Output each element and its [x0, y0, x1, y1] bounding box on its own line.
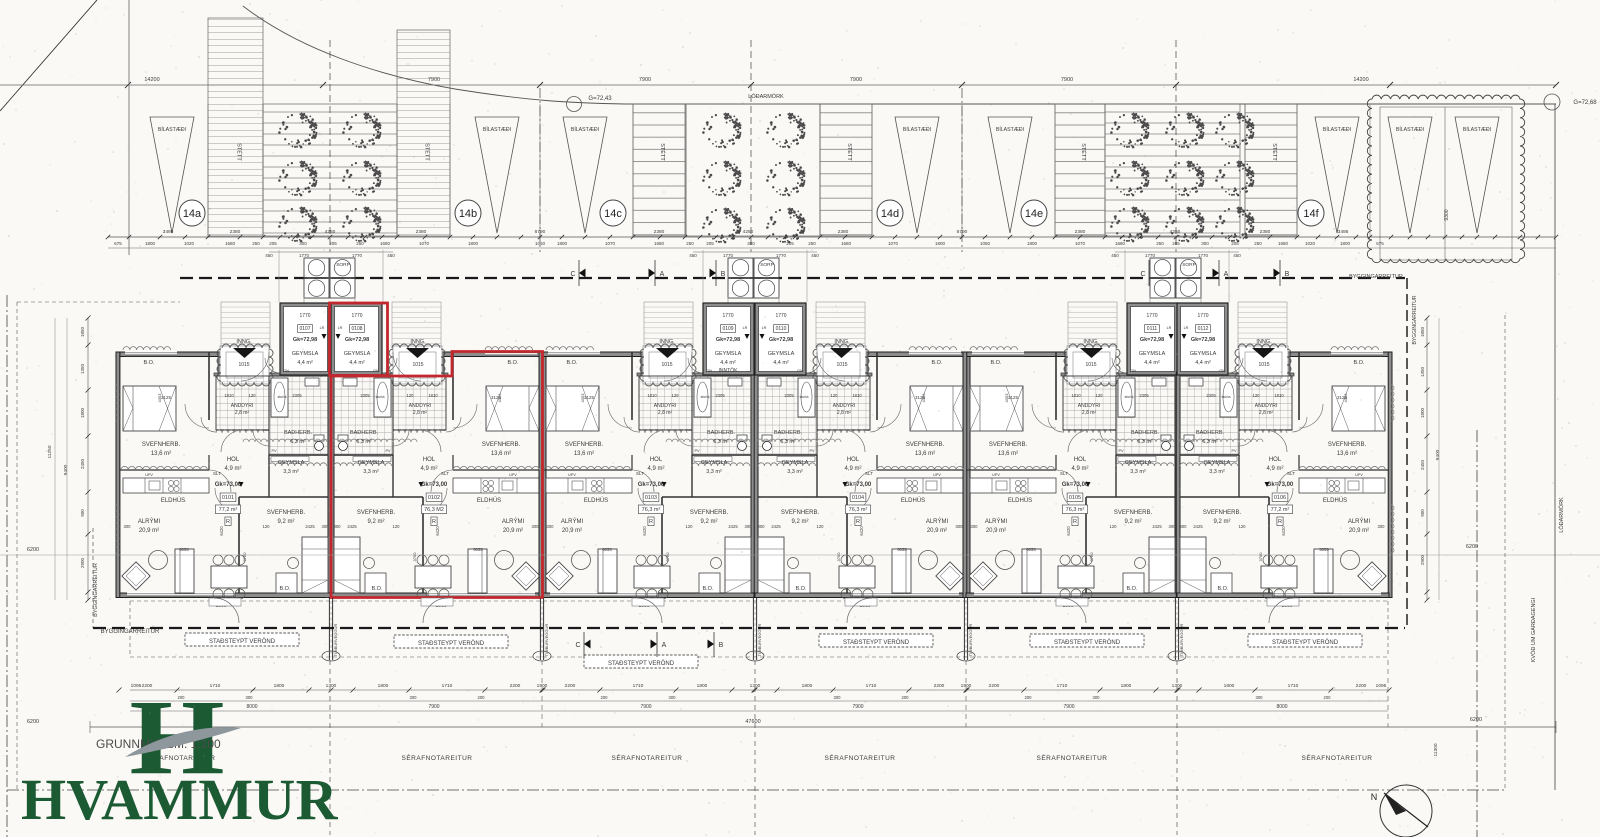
svg-text:HOL: HOL: [847, 457, 860, 463]
svg-text:1800: 1800: [1224, 683, 1235, 689]
svg-text:2380: 2380: [230, 229, 241, 235]
svg-text:1770: 1770: [299, 253, 310, 258]
svg-text:HOL: HOL: [1269, 457, 1282, 463]
svg-text:SVEFNHERB.: SVEFNHERB.: [482, 442, 521, 448]
svg-text:900: 900: [1420, 509, 1425, 517]
svg-text:0102: 0102: [428, 495, 440, 501]
svg-text:GEYMSLA: GEYMSLA: [344, 351, 371, 357]
SORP connectors: [303, 297, 305, 303]
svg-text:BÍLASTÆÐI: BÍLASTÆÐI: [996, 126, 1024, 133]
svg-text:250: 250: [1254, 241, 1262, 246]
svg-text:0101: 0101: [222, 495, 234, 501]
svg-text:3495: 3495: [163, 229, 174, 235]
svg-text:0105: 0105: [1069, 495, 1081, 501]
svg-text:1770: 1770: [351, 313, 362, 319]
svg-text:1770: 1770: [1146, 313, 1157, 319]
svg-text:SÉRAFNOTAREITUR: SÉRAFNOTAREITUR: [402, 753, 473, 762]
svg-text:2305: 2305: [360, 393, 370, 398]
svg-text:B.O.: B.O.: [931, 360, 942, 366]
svg-text:STÉTT: STÉTT: [846, 143, 853, 161]
right dashdot verticals: [1476, 430, 1478, 837]
svg-text:2380: 2380: [1260, 229, 1271, 235]
svg-text:sturta: sturta: [278, 395, 287, 399]
svg-text:2425: 2425: [728, 524, 738, 529]
red unit outline: [330, 303, 388, 376]
svg-text:ANDDYRI: ANDDYRI: [1078, 403, 1101, 409]
svg-text:ELDHÚS: ELDHÚS: [1323, 497, 1347, 504]
svg-text:6,3 m²: 6,3 m²: [780, 439, 796, 445]
stett sidewalk bands: [208, 18, 263, 236]
svg-text:20,9 m²: 20,9 m²: [562, 528, 582, 534]
svg-text:1800: 1800: [378, 683, 389, 689]
svg-text:120: 120: [686, 524, 694, 529]
svg-text:GEYMSLA: GEYMSLA: [715, 351, 742, 357]
svg-text:300: 300: [1256, 695, 1264, 700]
svg-text:2425: 2425: [1152, 524, 1162, 529]
svg-text:3780: 3780: [1089, 552, 1094, 562]
svg-text:ELDHÚS: ELDHÚS: [584, 497, 608, 504]
svg-text:1015: 1015: [238, 362, 249, 368]
svg-text:STAÐSTEYPT VERÖND: STAÐSTEYPT VERÖND: [1272, 639, 1339, 646]
svg-text:77,2 m²: 77,2 m²: [219, 507, 238, 513]
svg-text:SVEFNHERB.: SVEFNHERB.: [1328, 442, 1367, 448]
svg-text:1800: 1800: [145, 241, 156, 246]
svg-text:4,9 m²: 4,9 m²: [844, 466, 861, 472]
svg-text:450: 450: [1111, 253, 1119, 258]
svg-text:205: 205: [1172, 241, 1180, 246]
svg-text:200: 200: [1025, 695, 1033, 700]
svg-text:SLT: SLT: [441, 471, 449, 476]
overall dim line: [90, 726, 1556, 728]
svg-text:1800: 1800: [80, 407, 85, 418]
svg-text:250: 250: [1156, 241, 1164, 246]
svg-text:C: C: [575, 642, 580, 649]
svg-text:1070: 1070: [605, 241, 616, 246]
svg-text:1810: 1810: [1274, 393, 1284, 398]
svg-text:1800: 1800: [1027, 241, 1038, 246]
svg-text:B.O.: B.O.: [1126, 586, 1137, 592]
svg-text:1710: 1710: [1057, 683, 1068, 689]
svg-text:0109: 0109: [722, 326, 733, 332]
svg-text:SORP: SORP: [336, 262, 350, 268]
svg-text:B.O.: B.O.: [990, 360, 1001, 366]
svg-text:6790: 6790: [535, 229, 546, 235]
svg-text:B.O.: B.O.: [1217, 586, 1228, 592]
svg-text:INNG.: INNG.: [1256, 339, 1272, 345]
svg-text:4353: 4353: [157, 393, 162, 403]
svg-text:1800: 1800: [1420, 407, 1425, 418]
svg-text:STÉTT: STÉTT: [424, 143, 431, 161]
svg-text:3780: 3780: [1258, 552, 1263, 562]
svg-text:9,2 m²: 9,2 m²: [791, 519, 808, 525]
svg-text:7900: 7900: [639, 77, 651, 83]
svg-text:5055: 5055: [897, 547, 907, 552]
svg-text:Gk=73,00: Gk=73,00: [215, 482, 242, 488]
svg-text:3,3 m²: 3,3 m²: [1130, 469, 1146, 475]
svg-text:Gk=73,00: Gk=73,00: [1062, 482, 1089, 488]
svg-text:6,3 m²: 6,3 m²: [1202, 439, 1218, 445]
svg-text:GEYMSLA: GEYMSLA: [358, 460, 385, 466]
left boundary dashdot: [6, 295, 8, 837]
svg-text:13,6 m²: 13,6 m²: [574, 451, 594, 457]
svg-text:STÉTT: STÉTT: [659, 143, 666, 161]
curved boundary: [243, 6, 625, 104]
svg-text:6200: 6200: [1466, 544, 1478, 550]
svg-text:1020: 1020: [1305, 241, 1316, 246]
svg-text:250: 250: [686, 241, 694, 246]
svg-text:300: 300: [1201, 241, 1209, 246]
svg-text:ALRÝMI: ALRÝMI: [985, 518, 1008, 525]
revision cloud top right: [1367, 95, 1524, 263]
SORP bins: [304, 258, 329, 278]
svg-text:STAÐSTEYPT VERÖND: STAÐSTEYPT VERÖND: [843, 639, 910, 646]
svg-text:B.O.: B.O.: [279, 586, 290, 592]
svg-text:R: R: [226, 519, 230, 525]
svg-text:7900: 7900: [850, 77, 862, 83]
svg-text:8000: 8000: [246, 704, 257, 710]
svg-text:R: R: [1278, 519, 1282, 525]
svg-text:2200: 2200: [934, 683, 945, 689]
svg-text:300: 300: [410, 695, 418, 700]
svg-text:TIMBURVEGGUR: TIMBURVEGGUR: [544, 624, 549, 657]
svg-text:4,9 m²: 4,9 m²: [1071, 466, 1088, 472]
svg-text:ANDDYRI: ANDDYRI: [1255, 403, 1278, 409]
timber walls between verandas: [328, 598, 330, 660]
svg-text:0107: 0107: [299, 326, 310, 332]
svg-text:B.O.: B.O.: [371, 586, 382, 592]
svg-text:GEYMSLA: GEYMSLA: [1139, 351, 1166, 357]
svg-text:6420: 6420: [219, 526, 224, 536]
svg-text:900: 900: [80, 509, 85, 517]
svg-text:GN: GN: [373, 368, 379, 373]
svg-text:5055: 5055: [602, 547, 612, 552]
svg-text:R: R: [649, 519, 653, 525]
svg-text:SORP: SORP: [1182, 262, 1196, 268]
svg-text:STAÐSTEYPT VERÖND: STAÐSTEYPT VERÖND: [209, 638, 276, 645]
svg-text:200: 200: [601, 695, 609, 700]
svg-text:B.O.: B.O.: [143, 360, 154, 366]
svg-text:BÍLASTÆÐI: BÍLASTÆÐI: [1463, 126, 1491, 133]
svg-text:76,3 m²: 76,3 m²: [1066, 507, 1085, 513]
svg-text:14a: 14a: [183, 208, 202, 220]
svg-text:3125: 3125: [161, 395, 172, 400]
svg-text:sturta: sturta: [800, 395, 809, 399]
svg-text:6,3 m²: 6,3 m²: [290, 439, 306, 445]
svg-text:G=72,68: G=72,68: [1573, 100, 1597, 106]
svg-text:3,3 m²: 3,3 m²: [283, 469, 299, 475]
svg-text:SVEFNHERB.: SVEFNHERB.: [1114, 510, 1153, 516]
svg-text:SVEFNHERB.: SVEFNHERB.: [989, 442, 1028, 448]
svg-text:11300: 11300: [1433, 743, 1439, 756]
svg-text:0103: 0103: [645, 495, 657, 501]
svg-text:4,9 m²: 4,9 m²: [224, 466, 241, 472]
svg-text:120: 120: [672, 393, 680, 398]
svg-text:R: R: [432, 519, 436, 525]
svg-text:2,8 m²: 2,8 m²: [235, 410, 250, 416]
svg-text:SVEFNHERB.: SVEFNHERB.: [267, 510, 306, 516]
property boundary diagonal top-left: [0, 0, 97, 111]
svg-text:2200: 2200: [1356, 683, 1367, 689]
svg-text:GN: GN: [706, 368, 712, 373]
svg-text:300: 300: [747, 241, 755, 246]
svg-text:SÉRAFNOTAREITUR: SÉRAFNOTAREITUR: [825, 753, 896, 762]
svg-text:1020: 1020: [184, 241, 195, 246]
svg-text:BÍLASTÆÐI: BÍLASTÆÐI: [483, 126, 511, 133]
svg-text:4250: 4250: [1170, 229, 1181, 235]
svg-text:14c: 14c: [604, 208, 622, 220]
svg-text:2380: 2380: [838, 229, 849, 235]
lot number circles 14a-14f: [179, 200, 205, 226]
right dim chain: [1426, 318, 1428, 600]
svg-text:13,6 m²: 13,6 m²: [998, 451, 1018, 457]
svg-text:300: 300: [547, 524, 555, 529]
svg-text:UPV: UPV: [1355, 473, 1363, 477]
svg-text:0111: 0111: [1147, 326, 1158, 332]
svg-text:205: 205: [329, 241, 337, 246]
svg-text:SVEFNHERB.: SVEFNHERB.: [1203, 510, 1242, 516]
svg-text:BYGGINGARREITUR: BYGGINGARREITUR: [101, 629, 160, 635]
svg-text:STAÐSTEYPT VERÖND: STAÐSTEYPT VERÖND: [1054, 639, 1121, 646]
svg-text:1770: 1770: [776, 253, 787, 258]
svg-text:3,3 m²: 3,3 m²: [363, 469, 379, 475]
svg-text:300: 300: [1169, 524, 1177, 529]
svg-text:STÉTT: STÉTT: [1080, 143, 1087, 161]
svg-text:1770: 1770: [775, 313, 786, 319]
svg-text:300: 300: [532, 524, 540, 529]
svg-text:6,3 m²: 6,3 m²: [713, 439, 729, 445]
svg-text:ALRÝMI: ALRÝMI: [926, 518, 949, 525]
svg-text:LR: LR: [1167, 326, 1172, 330]
svg-text:ELDHÚS: ELDHÚS: [161, 497, 185, 504]
svg-text:9400: 9400: [1435, 449, 1441, 460]
svg-text:120: 120: [1239, 524, 1247, 529]
svg-text:sturta: sturta: [1222, 395, 1231, 399]
svg-text:SLT: SLT: [213, 471, 221, 476]
svg-text:2200: 2200: [565, 683, 576, 689]
lodarmork property line: [625, 103, 1556, 105]
svg-text:2450: 2450: [1420, 459, 1425, 470]
svg-text:1770: 1770: [352, 253, 363, 258]
svg-text:SLT: SLT: [1060, 471, 1068, 476]
svg-text:STÉTT: STÉTT: [236, 143, 243, 161]
veranda door arcs: [214, 598, 239, 623]
window radiator scallops: [121, 466, 207, 470]
svg-text:1810: 1810: [224, 393, 234, 398]
svg-text:205: 205: [786, 241, 794, 246]
svg-text:sturta: sturta: [1125, 395, 1134, 399]
svg-text:0110: 0110: [776, 326, 787, 332]
svg-text:R: R: [1073, 519, 1077, 525]
G=72,43 spot level: [567, 97, 582, 112]
svg-text:1350: 1350: [1420, 366, 1425, 377]
svg-text:120: 120: [263, 524, 271, 529]
svg-text:1070: 1070: [419, 241, 430, 246]
svg-text:3,3 m²: 3,3 m²: [787, 469, 803, 475]
svg-text:N: N: [1371, 792, 1378, 802]
svg-text:2450: 2450: [80, 458, 85, 469]
svg-text:76,3 M2: 76,3 M2: [424, 507, 444, 513]
svg-text:77,2 m²: 77,2 m²: [1271, 507, 1290, 513]
svg-text:SÉRAFNOTAREITUR: SÉRAFNOTAREITUR: [1302, 753, 1373, 762]
svg-text:PV: PV: [694, 449, 700, 453]
svg-text:250: 250: [808, 241, 816, 246]
svg-text:1710: 1710: [866, 683, 877, 689]
svg-text:1710: 1710: [1288, 683, 1299, 689]
svg-text:5055: 5055: [1026, 547, 1036, 552]
svg-text:2305: 2305: [715, 393, 725, 398]
svg-text:300: 300: [322, 524, 330, 529]
svg-text:UPV: UPV: [992, 473, 1000, 477]
section markers bottom: [584, 639, 591, 648]
svg-text:2380: 2380: [654, 229, 665, 235]
svg-text:ELDHÚS: ELDHÚS: [477, 497, 501, 504]
svg-text:120: 120: [1096, 393, 1104, 398]
svg-text:14200: 14200: [144, 77, 159, 83]
svg-text:1800: 1800: [557, 241, 568, 246]
svg-text:450: 450: [265, 253, 273, 258]
svg-text:300: 300: [834, 695, 842, 700]
svg-text:2305: 2305: [292, 393, 302, 398]
svg-text:INNG.: INNG.: [410, 339, 426, 345]
svg-text:300: 300: [669, 695, 677, 700]
svg-text:9,2 m²: 9,2 m²: [277, 519, 294, 525]
svg-text:3780: 3780: [412, 552, 417, 562]
svg-text:B.O.: B.O.: [566, 360, 577, 366]
svg-text:9400: 9400: [63, 464, 69, 475]
svg-text:5055: 5055: [1319, 547, 1329, 552]
svg-text:2305: 2305: [1139, 393, 1149, 398]
svg-text:675: 675: [114, 241, 122, 246]
svg-text:7900: 7900: [1063, 704, 1074, 710]
svg-text:1095: 1095: [1376, 683, 1387, 689]
svg-text:9300: 9300: [1444, 209, 1450, 220]
svg-text:4,9 m²: 4,9 m²: [647, 466, 664, 472]
svg-text:B.O.: B.O.: [702, 586, 713, 592]
svg-text:4353: 4353: [497, 393, 502, 403]
svg-text:450: 450: [1233, 253, 1241, 258]
svg-text:1810: 1810: [852, 393, 862, 398]
svg-text:3780: 3780: [665, 552, 670, 562]
svg-text:20,9 m²: 20,9 m²: [927, 528, 947, 534]
svg-text:SLT: SLT: [1287, 471, 1295, 476]
svg-text:300: 300: [971, 524, 979, 529]
veranda unit separators: [330, 601, 332, 657]
svg-text:GEYMSLA: GEYMSLA: [1204, 460, 1231, 466]
svg-text:1710: 1710: [442, 683, 453, 689]
svg-text:ANDDYRI: ANDDYRI: [833, 403, 856, 409]
svg-text:BÍLASTÆÐI: BÍLASTÆÐI: [158, 126, 186, 133]
svg-text:2,8 m²: 2,8 m²: [837, 410, 852, 416]
svg-text:INNTÖK: INNTÖK: [719, 367, 739, 374]
svg-text:sturta: sturta: [701, 395, 710, 399]
svg-text:GN: GN: [283, 368, 289, 373]
svg-text:G=72,43: G=72,43: [588, 96, 612, 102]
svg-text:R: R: [856, 519, 860, 525]
svg-text:SÉRAFNOTAREITUR: SÉRAFNOTAREITUR: [612, 753, 683, 762]
svg-text:120: 120: [407, 393, 415, 398]
svg-text:6,3 m²: 6,3 m²: [1137, 439, 1153, 445]
entry steps bottom: [209, 598, 241, 606]
bottom dimension rows: [130, 689, 1388, 691]
svg-text:1800: 1800: [802, 683, 813, 689]
svg-text:3780: 3780: [836, 552, 841, 562]
parking wedges BILASTAEDI: [150, 117, 194, 233]
svg-text:120: 120: [831, 393, 839, 398]
svg-text:LR: LR: [338, 326, 343, 330]
svg-text:GEYMSLA: GEYMSLA: [1190, 351, 1217, 357]
svg-text:GEYMSLA: GEYMSLA: [701, 460, 728, 466]
svg-text:20,9 m²: 20,9 m²: [986, 528, 1006, 534]
svg-text:Gk=72,98: Gk=72,98: [1191, 337, 1215, 343]
bottom dashed verticals: [329, 660, 331, 835]
svg-text:200: 200: [478, 695, 486, 700]
svg-text:1015: 1015: [1085, 362, 1096, 368]
byggingarreitur dashed boundary bottom: [93, 627, 1405, 629]
planting strips with hatch: [263, 104, 397, 236]
svg-text:2200: 2200: [989, 683, 1000, 689]
svg-text:6420: 6420: [435, 526, 440, 536]
parking zone verticals: [207, 104, 209, 237]
svg-text:4,4 m²: 4,4 m²: [297, 360, 313, 366]
svg-text:2900: 2900: [80, 557, 85, 568]
svg-text:GN: GN: [797, 368, 803, 373]
svg-text:Gk=72,98: Gk=72,98: [1140, 337, 1164, 343]
svg-text:7900: 7900: [428, 704, 439, 710]
svg-text:120: 120: [1110, 524, 1118, 529]
svg-text:1810: 1810: [647, 393, 657, 398]
svg-text:0112: 0112: [1198, 326, 1209, 332]
svg-text:2425: 2425: [347, 524, 357, 529]
svg-text:6,3 m²: 6,3 m²: [356, 439, 372, 445]
svg-text:14200: 14200: [1353, 77, 1368, 83]
svg-text:3,3 m²: 3,3 m²: [1209, 469, 1225, 475]
svg-text:1680: 1680: [380, 241, 391, 246]
svg-text:1770: 1770: [1197, 313, 1208, 319]
svg-text:KVÖÐ UM GARÐAGENGI: KVÖÐ UM GARÐAGENGI: [1530, 597, 1537, 662]
svg-text:SVEFNHERB.: SVEFNHERB.: [781, 510, 820, 516]
svg-text:BYGGINGARREITUR: BYGGINGARREITUR: [1412, 295, 1418, 344]
svg-text:B.O.: B.O.: [1353, 360, 1364, 366]
svg-text:1050: 1050: [535, 241, 546, 246]
svg-text:120: 120: [817, 524, 825, 529]
vertical line left parking edge: [128, 0, 130, 255]
svg-text:HVAMMUR: HVAMMUR: [21, 767, 339, 832]
svg-text:BYGGINGARREITUR: BYGGINGARREITUR: [93, 563, 99, 617]
north compass: [1380, 785, 1432, 837]
svg-text:205: 205: [706, 241, 714, 246]
svg-text:HOL: HOL: [650, 457, 663, 463]
svg-text:1680: 1680: [1278, 241, 1289, 246]
svg-text:B: B: [719, 642, 724, 649]
svg-text:BYGGINGARREITUR: BYGGINGARREITUR: [1349, 274, 1403, 280]
svg-text:BAÐHERB.: BAÐHERB.: [707, 430, 736, 436]
svg-text:LR: LR: [1184, 326, 1189, 330]
svg-text:4,4 m²: 4,4 m²: [773, 360, 789, 366]
svg-text:SVEFNHERB.: SVEFNHERB.: [906, 442, 945, 448]
svg-text:ELDHÚS: ELDHÚS: [1008, 497, 1032, 504]
svg-text:HOL: HOL: [227, 457, 240, 463]
svg-text:ALRÝMI: ALRÝMI: [502, 518, 525, 525]
svg-text:1710: 1710: [633, 683, 644, 689]
svg-text:GEYMSLA: GEYMSLA: [292, 351, 319, 357]
svg-text:5055: 5055: [473, 547, 483, 552]
svg-text:BAÐHERB.: BAÐHERB.: [774, 430, 803, 436]
top dimension line: [0, 84, 1556, 86]
svg-text:ELDHÚS: ELDHÚS: [901, 497, 925, 504]
svg-text:1770: 1770: [723, 253, 734, 258]
svg-text:2380: 2380: [1075, 229, 1086, 235]
svg-text:450: 450: [811, 253, 819, 258]
